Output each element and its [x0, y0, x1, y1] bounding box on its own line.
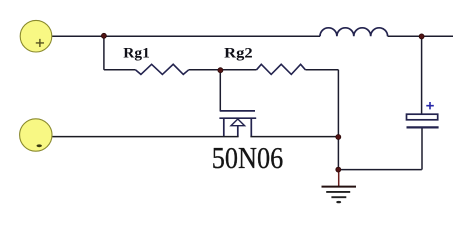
svg-text:50N06: 50N06 [212, 141, 283, 175]
svg-text:Rg1: Rg1 [123, 46, 150, 62]
svg-text:Rg2: Rg2 [224, 46, 253, 62]
